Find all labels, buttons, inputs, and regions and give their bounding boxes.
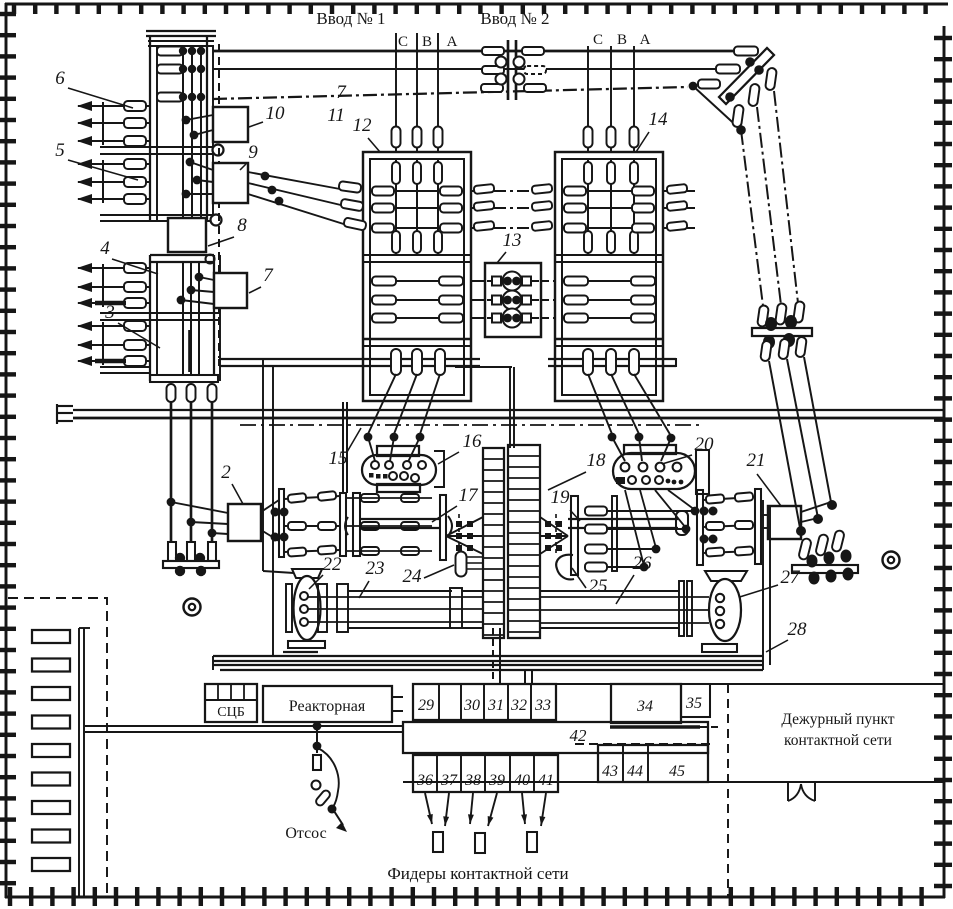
svg-text:16: 16	[463, 431, 483, 452]
block12 bus bushing 3	[435, 349, 445, 375]
transformer27 plates	[679, 581, 692, 636]
vvod1 insulator C	[392, 127, 401, 148]
portal plate P2	[340, 493, 346, 556]
wires to transformer 20	[612, 437, 671, 461]
svg-text:38: 38	[464, 772, 481, 789]
disconnector diamond right	[540, 514, 568, 554]
node on lv bus 1	[313, 722, 322, 731]
block12 bottom bus	[219, 359, 480, 366]
cable run tower to 27	[540, 591, 709, 628]
svg-text:34: 34	[636, 698, 653, 715]
svg-text:20: 20	[695, 434, 715, 455]
svg-text:7: 7	[263, 265, 274, 286]
left yard drop wires	[167, 402, 228, 548]
svg-text:12: 12	[353, 115, 373, 136]
bushing circles L3	[496, 74, 525, 85]
block14 middle section rows	[562, 277, 656, 323]
svg-text:2: 2	[221, 462, 231, 483]
cells row 2	[413, 755, 558, 792]
svg-text:26: 26	[633, 553, 653, 574]
feeder arrows group 3	[77, 321, 150, 366]
svg-text:29: 29	[418, 697, 434, 714]
label 7 line	[336, 82, 347, 103]
svg-text:30: 30	[463, 697, 480, 714]
group4 heavy lead	[95, 301, 126, 305]
switchgear block 14 frame	[555, 152, 663, 401]
lower rack bushing 3	[208, 384, 217, 402]
label 4	[100, 238, 158, 274]
svg-text:Ввод № 2: Ввод № 2	[480, 9, 549, 28]
feeder arrows group 4	[77, 263, 150, 308]
svg-text:33: 33	[534, 697, 551, 714]
label 13	[497, 230, 522, 263]
fence border left	[0, 3, 16, 898]
riser wires to lower yard	[263, 359, 294, 657]
lower rack frame	[150, 255, 220, 381]
phase labels C B A input2	[593, 32, 651, 48]
feeder line W3	[765, 67, 798, 303]
upper rack bus wires	[183, 46, 201, 221]
portal plate P6	[755, 489, 761, 564]
long wall line	[403, 781, 944, 783]
block12 outgoing diagonals	[368, 374, 440, 434]
svg-text:10: 10	[266, 103, 286, 124]
dashed riser at rack	[218, 44, 220, 358]
svg-text:27: 27	[781, 567, 802, 588]
svg-text:В: В	[422, 34, 432, 50]
block12 middle section rows	[370, 277, 464, 323]
phase labels C B A input1	[398, 34, 458, 50]
node W3 end	[827, 500, 837, 510]
transformer 16 body	[362, 446, 436, 492]
transformer 22	[292, 569, 322, 640]
fence border top	[5, 4, 948, 14]
feeder lines to lower assembly	[769, 357, 831, 528]
portal plate P3	[353, 493, 360, 556]
box2 to portal wires	[261, 500, 279, 541]
fence border bottom	[5, 887, 945, 906]
transformer22 base	[283, 641, 325, 652]
transformer 27	[705, 571, 747, 641]
box9 fan to block12	[248, 172, 367, 231]
svg-text:40: 40	[514, 772, 530, 789]
vvod1 insulator A	[434, 127, 443, 148]
lv riser pair	[79, 628, 90, 896]
upper rack top cap	[146, 31, 216, 46]
ground marker right	[883, 552, 900, 569]
portal plate P4	[440, 495, 446, 560]
svg-text:28: 28	[788, 619, 808, 640]
block12 bus bushing 2	[412, 349, 422, 375]
svg-text:13: 13	[503, 230, 522, 251]
node on portal 2	[754, 65, 764, 75]
lower rack bushing 2	[187, 384, 196, 402]
node W1 end	[796, 526, 806, 536]
feeder wires to building	[493, 628, 532, 684]
track left terminal	[57, 404, 73, 424]
svg-text:36: 36	[416, 772, 433, 789]
tie bus from block12	[455, 366, 512, 368]
upper rack junction nodes	[179, 47, 205, 101]
block14 bottom bus	[548, 358, 676, 367]
transformer16 bracket	[434, 451, 444, 487]
wires to transformer 16	[368, 437, 420, 462]
ground marker left	[184, 599, 201, 616]
measuring block 13	[485, 263, 541, 337]
node on portal 1	[745, 57, 755, 67]
bushing insulator left L2	[482, 66, 504, 74]
string hardware pair 1	[271, 508, 289, 517]
svg-text:14: 14	[649, 109, 669, 130]
wire down to tower	[510, 367, 514, 448]
anchor portal (diagonal)	[719, 48, 774, 104]
drop insulator 3	[208, 542, 216, 561]
bus ties block12-block14	[471, 184, 555, 231]
top boundary line	[556, 683, 944, 685]
group3 bottom bar	[100, 367, 150, 373]
node T2 c	[667, 434, 676, 443]
svg-text:31: 31	[487, 697, 504, 714]
rack19 plate	[571, 496, 578, 575]
SCB box	[205, 684, 257, 722]
svg-text:5: 5	[55, 140, 65, 161]
svg-text:С: С	[398, 34, 408, 50]
svg-text:11: 11	[327, 105, 345, 126]
upper rack frame	[100, 36, 213, 221]
cells 43 44 45	[598, 745, 708, 782]
group3 heavy lead	[95, 359, 126, 363]
suction arc	[318, 748, 339, 807]
transformer22 left plate	[286, 584, 292, 632]
block14 right stubs	[663, 184, 695, 231]
svg-text:43: 43	[602, 763, 618, 780]
transformer27 base	[702, 644, 737, 652]
transformer20 side cabinet	[696, 450, 709, 494]
switchgear block 12 frame	[363, 152, 471, 401]
aux box 10	[213, 107, 248, 142]
switch box 2	[228, 504, 261, 541]
svg-text:контактной сети: контактной сети	[784, 732, 892, 749]
right string hardware 1	[700, 507, 718, 516]
bar under 34	[610, 725, 722, 728]
cable run 23	[308, 588, 483, 628]
bushing circles L2	[496, 57, 525, 68]
box9 connection wires	[182, 158, 213, 199]
hall 42	[403, 722, 708, 753]
svg-text:В: В	[617, 32, 627, 48]
bus line L1	[213, 50, 735, 53]
suction cell	[313, 755, 321, 770]
label 8	[208, 215, 247, 246]
cells row 1	[413, 684, 556, 720]
dashed boundary left yard	[8, 598, 107, 896]
feeder arrows group 5	[77, 159, 150, 204]
node on L3	[689, 82, 698, 91]
svg-text:42: 42	[570, 726, 588, 745]
right portal string row1	[703, 492, 755, 504]
right portal string row2	[703, 521, 755, 530]
label 14	[636, 109, 668, 152]
duty point text	[781, 711, 894, 749]
feeder insulators above mid support	[757, 301, 805, 327]
label 9	[240, 142, 258, 170]
label 15	[329, 428, 362, 469]
node T2 a	[608, 433, 617, 442]
arc joint right of P4	[448, 516, 452, 536]
svg-text:Реакторная: Реакторная	[289, 698, 366, 715]
arc joint left	[345, 517, 348, 535]
svg-text:45: 45	[669, 763, 685, 780]
svg-text:39: 39	[488, 772, 505, 789]
track line pair	[73, 410, 944, 425]
label 23	[359, 558, 385, 598]
block13 row 3	[471, 309, 555, 328]
feeder terminal 2	[475, 833, 485, 853]
switch box 21	[768, 506, 801, 539]
bus line L3 dash-dot	[213, 87, 688, 99]
lower rack bushing 1	[167, 384, 176, 402]
gate symbol	[788, 782, 815, 801]
vvod2 phase wires	[588, 46, 634, 153]
feeder insulators below mid support	[760, 336, 807, 361]
bracket 25	[556, 555, 574, 580]
reactor room	[263, 686, 392, 722]
vvod1 insulator B	[413, 127, 422, 148]
vvod2 insulator C	[584, 127, 593, 148]
label 10	[249, 103, 285, 127]
feeder terminal 3	[527, 832, 537, 852]
rack19 inner plate	[612, 496, 617, 571]
feeder line W2	[748, 83, 781, 305]
vvod2 insulator A	[630, 127, 639, 148]
svg-text:19: 19	[551, 487, 571, 508]
label 7 box	[249, 265, 274, 293]
label 18	[548, 450, 606, 490]
label 2	[221, 462, 243, 504]
group4 bottom bar	[100, 313, 220, 320]
label 26	[616, 553, 652, 604]
bus line L2	[213, 68, 722, 70]
svg-text:7: 7	[336, 82, 347, 103]
lv cabinet rects	[32, 630, 70, 871]
node on lv bus 2	[313, 742, 322, 751]
insulator string row 2	[284, 522, 340, 530]
suction insulator	[314, 789, 331, 807]
aux box 7	[214, 273, 247, 308]
label 5	[55, 140, 138, 180]
mid support beam	[752, 315, 812, 349]
transformer 20 body	[613, 445, 695, 489]
suction text	[285, 825, 326, 842]
svg-text:Отсос: Отсос	[285, 825, 326, 842]
lower rack bottom plate	[150, 375, 218, 382]
svg-text:С: С	[593, 32, 603, 48]
label 3	[104, 302, 160, 348]
block12 internal vertical feeders	[392, 159, 442, 255]
vvod2 insulator B	[607, 127, 616, 148]
svg-text:17: 17	[459, 485, 480, 506]
disconnector diamond left	[446, 514, 483, 554]
node T1 a	[364, 433, 373, 442]
label 28	[766, 619, 807, 652]
label 11	[327, 105, 345, 126]
insulator on L3 dashed	[698, 80, 720, 89]
node T1 c	[416, 433, 425, 442]
lv bus to left	[85, 726, 403, 732]
lower rack bus wires	[183, 262, 199, 375]
upper rack fuses	[157, 47, 183, 102]
svg-text:21: 21	[747, 450, 766, 471]
suction arrow	[334, 811, 347, 832]
label 17	[432, 485, 479, 522]
svg-text:Фидеры контактной сети: Фидеры контактной сети	[387, 864, 568, 883]
rack19 rows	[584, 507, 695, 572]
contact net arrows	[425, 793, 546, 826]
reactor taps	[392, 697, 403, 711]
label 19	[551, 487, 581, 521]
insulator on L1 before portal	[734, 47, 758, 56]
bushing insulator left L1	[482, 47, 504, 55]
middle row capsules	[346, 494, 432, 555]
block14 bus bushing 2	[606, 349, 616, 375]
suction node	[328, 805, 337, 814]
yard frame right riser	[763, 500, 770, 670]
svg-text:41: 41	[538, 772, 554, 789]
fence border right	[934, 26, 952, 898]
bushing insulator left L3	[481, 84, 503, 92]
svg-text:24: 24	[403, 566, 423, 587]
vvod1 phase wires	[396, 33, 438, 153]
label 6	[55, 68, 133, 108]
label 16	[438, 431, 482, 464]
diag tie from L3	[693, 86, 741, 130]
block12 top section rows	[370, 187, 464, 233]
bushing insulator right L2	[524, 66, 546, 74]
suction circle	[312, 781, 321, 790]
bus bar 17 left	[360, 519, 440, 528]
svg-text:22: 22	[323, 554, 343, 575]
transformer22 right plates	[318, 584, 348, 632]
label 25	[572, 568, 608, 597]
insulator 24	[456, 552, 467, 577]
svg-text:А: А	[447, 34, 458, 50]
svg-text:23: 23	[366, 558, 385, 579]
feeder terminal 1	[433, 832, 443, 852]
svg-text:35: 35	[685, 695, 702, 712]
feeder line W1	[732, 104, 763, 306]
svg-text:18: 18	[587, 450, 607, 471]
yard frame bus bottom	[213, 656, 763, 670]
vvod2 wall bushing bars	[508, 40, 516, 100]
lower right insulators	[798, 530, 845, 561]
block14 internal vertical feeders	[584, 159, 638, 255]
right portal string row3	[703, 546, 755, 556]
block14 bus bushing 3	[629, 349, 639, 375]
label 22	[309, 554, 342, 589]
insulator string row 3	[284, 545, 340, 556]
node W2 end	[813, 514, 823, 524]
node T1 b	[390, 433, 399, 442]
insulator string row 1	[284, 491, 340, 503]
label 12	[353, 115, 381, 152]
box 35	[681, 684, 710, 717]
drop insulator 1	[168, 542, 176, 561]
contact net feeders text	[387, 864, 568, 883]
svg-text:37: 37	[440, 772, 458, 789]
svg-text:15: 15	[329, 448, 348, 469]
dashed boundary duty point	[727, 684, 729, 896]
svg-text:СЦБ: СЦБ	[217, 705, 245, 720]
label Vvod No1	[316, 9, 385, 28]
svg-text:4: 4	[100, 238, 110, 259]
box21 taps to feeders	[761, 502, 831, 532]
lower right support plate	[792, 550, 858, 585]
svg-text:Дежурный пункт: Дежурный пункт	[781, 711, 894, 728]
rack terminal circle 2	[211, 215, 222, 226]
box 34	[611, 684, 681, 723]
wire above portal P2	[343, 402, 347, 493]
node on portal 3	[725, 92, 735, 102]
svg-text:8: 8	[237, 215, 247, 236]
label 24	[403, 565, 455, 587]
insulator24 taps	[467, 557, 483, 569]
svg-text:44: 44	[627, 763, 643, 780]
rack terminal circle 1	[213, 145, 224, 156]
drop insulator 2	[187, 542, 195, 561]
rack terminal circle 3	[206, 255, 215, 264]
block14 outgoing diagonals	[588, 374, 671, 436]
insulator on L2 before portal	[716, 65, 740, 74]
svg-text:3: 3	[104, 302, 115, 323]
label Vvod No2	[480, 9, 549, 28]
label 20	[662, 434, 714, 464]
transformer20 tails	[625, 490, 699, 571]
svg-text:А: А	[640, 32, 651, 48]
node T2 b	[635, 433, 644, 442]
string hardware pair 2	[271, 533, 289, 542]
block13 row 1	[471, 272, 555, 291]
right string hardware 2	[700, 535, 718, 544]
aux box 9	[213, 163, 248, 203]
tower column left	[483, 448, 504, 638]
bushing insulator right L1	[522, 47, 544, 55]
bus bar right	[568, 511, 688, 535]
svg-text:32: 32	[510, 697, 527, 714]
block14 bus bushing 1	[583, 349, 593, 375]
lv drop to suction	[316, 722, 318, 753]
svg-text:Ввод № 1: Ввод № 1	[316, 9, 385, 28]
box10 connection wires	[182, 115, 213, 139]
dashed line above 43-45	[575, 743, 710, 745]
block14 top section rows	[562, 187, 656, 233]
feeder arrows group 6	[77, 101, 150, 146]
svg-text:9: 9	[248, 142, 258, 163]
block12 bus bushing 1	[391, 349, 401, 375]
label 21	[747, 450, 782, 506]
aux box 8	[168, 218, 206, 252]
block13 row 2	[471, 291, 555, 310]
label 27 leader	[730, 567, 801, 600]
portal plate P1	[279, 489, 284, 557]
tower column right	[508, 445, 540, 638]
svg-text:25: 25	[589, 576, 608, 597]
portal plate P5	[697, 490, 703, 565]
svg-text:6: 6	[55, 68, 65, 89]
box7 connection wires	[177, 273, 214, 305]
bushing insulator right L3	[524, 84, 546, 92]
left support plate	[163, 553, 219, 576]
node diag tie	[736, 125, 746, 135]
